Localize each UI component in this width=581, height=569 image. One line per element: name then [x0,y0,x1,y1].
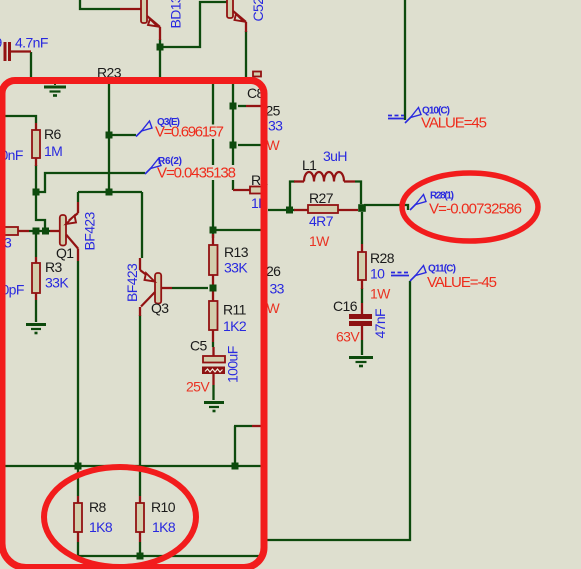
svg-text:33: 33 [270,281,285,297]
svg-text:C52: C52 [250,0,266,22]
svg-text:1K8: 1K8 [89,519,113,535]
svg-text:W: W [267,137,281,153]
svg-text:100uF: 100uF [225,346,241,383]
svg-text:R6: R6 [44,126,62,142]
svg-text:V=0.0435138: V=0.0435138 [157,165,236,182]
svg-text:L1: L1 [302,157,317,173]
svg-text:1W: 1W [370,286,391,302]
svg-text:BD13: BD13 [168,0,184,29]
svg-text:R28: R28 [370,250,395,266]
svg-text:R3: R3 [45,259,63,275]
svg-text:R10: R10 [151,499,176,515]
svg-text:1W: 1W [309,233,330,249]
svg-text:47nF: 47nF [372,309,388,339]
svg-text:1M: 1M [44,143,62,159]
svg-text:R27: R27 [309,190,334,206]
svg-text:1K8: 1K8 [152,519,176,535]
svg-text:VALUE=-45: VALUE=-45 [427,274,497,291]
svg-text:Q3: Q3 [151,300,169,316]
svg-text:25V: 25V [186,379,210,395]
svg-text:63V: 63V [336,329,360,345]
svg-text:33K: 33K [224,260,248,276]
svg-text:VALUE=45: VALUE=45 [421,115,487,132]
svg-text:Q11(C): Q11(C) [428,264,456,275]
svg-text:BF423: BF423 [82,211,98,250]
svg-text:V=-0.00732586: V=-0.00732586 [429,201,522,218]
svg-text:3uH: 3uH [323,148,347,164]
svg-text:C5: C5 [190,338,208,354]
svg-text:R13: R13 [224,244,249,260]
svg-text:BF423: BF423 [124,263,140,302]
svg-text:W: W [267,300,281,316]
svg-text:4.7nF: 4.7nF [15,35,48,51]
svg-text:R8: R8 [89,499,107,515]
svg-text:R11: R11 [223,302,247,318]
svg-text:C16: C16 [333,298,358,314]
svg-text:V=0.696157: V=0.696157 [155,124,224,141]
svg-text:33K: 33K [45,275,69,291]
svg-text:10: 10 [370,266,385,282]
svg-text:25: 25 [266,103,281,119]
svg-text:Q1: Q1 [56,245,74,261]
svg-text:1K2: 1K2 [223,318,247,334]
svg-text:26: 26 [266,263,281,279]
svg-text:33: 33 [268,118,283,134]
svg-text:4R7: 4R7 [309,213,334,229]
